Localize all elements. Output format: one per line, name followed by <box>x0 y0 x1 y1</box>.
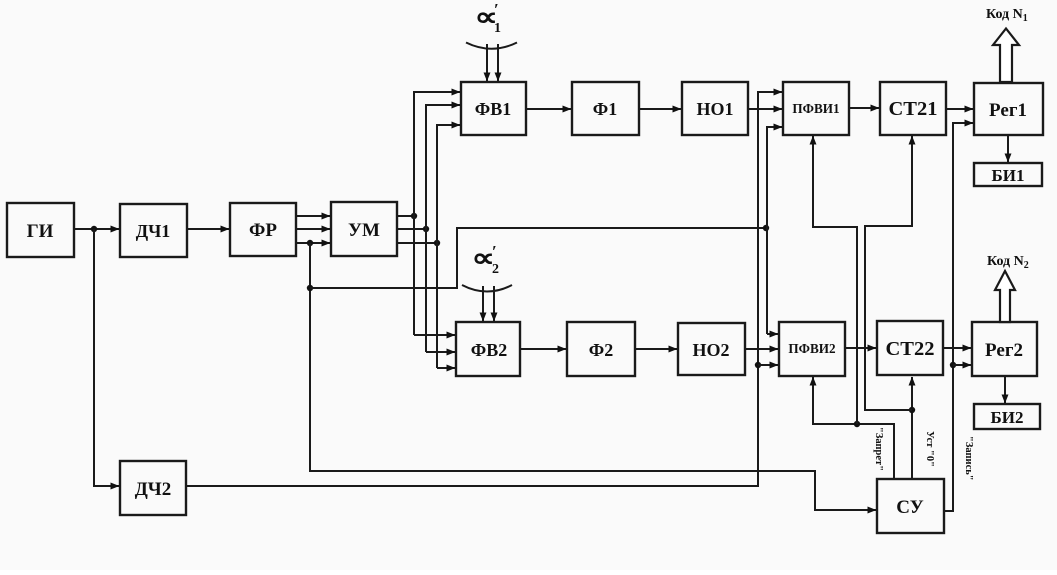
wire ФР to УМ line2 <box>296 228 330 230</box>
svg-text:ПФВИ1: ПФВИ1 <box>792 101 839 116</box>
wire Ф1 to НО1 <box>639 108 681 110</box>
node junction output2 <box>423 226 429 232</box>
wire Запись net СУ to Рег1 <box>944 123 973 511</box>
svg-text:ФВ1: ФВ1 <box>475 99 511 119</box>
svg-text:′: ′ <box>494 0 499 19</box>
svg-text:ГИ: ГИ <box>27 221 54 242</box>
wire Запись net branch to Рег2 <box>953 364 971 366</box>
wire Запрет net СУ to ПФВИ2 bottom <box>813 377 894 479</box>
wire Ф2 to НО2 <box>635 348 677 350</box>
block СУ <box>877 479 944 533</box>
block БИ2 <box>974 404 1040 429</box>
svg-text:′: ′ <box>492 242 497 261</box>
wire Уст0 net СУ to СТ22 bottom <box>911 377 913 479</box>
wire vertical1 to ФВ1 input1 <box>414 92 460 335</box>
wire ПФВИ1 to СТ21 <box>849 107 879 109</box>
svg-text:2: 2 <box>492 262 499 277</box>
block ДЧ2 <box>120 461 186 515</box>
wire alpha2 arrow right into ФВ2 top <box>493 286 495 321</box>
wire УМ output2 <box>397 228 426 230</box>
wire ДЧ2 output up vertical A to ПФВИ1 top input <box>186 92 782 486</box>
wire alpha2 arrow left into ФВ2 top <box>482 286 484 321</box>
svg-text:СУ: СУ <box>896 497 923 518</box>
block ФВ1 <box>461 82 526 135</box>
wire ПФВИ2 to СТ22 <box>845 347 876 349</box>
wire alpha1 arrow right into ФВ1 top <box>497 44 499 81</box>
block Рег1 <box>974 83 1043 135</box>
node junction Запись net <box>950 362 956 368</box>
svg-text:Рег2: Рег2 <box>985 340 1023 361</box>
wire ФВ1 to Ф1 <box>526 108 571 110</box>
wire УМ output3 <box>397 242 437 244</box>
svg-text:Рег1: Рег1 <box>989 100 1027 121</box>
wire vertical2 to ФВ2 input2 <box>426 351 455 353</box>
svg-text:БИ1: БИ1 <box>992 166 1025 185</box>
wire Уст0 net branch to СТ21 bottom <box>865 136 912 410</box>
svg-text:СТ22: СТ22 <box>886 338 935 360</box>
svg-text:СТ21: СТ21 <box>889 98 938 120</box>
wire СТ21 to Рег1 <box>946 108 973 110</box>
block ФР <box>230 203 296 256</box>
block ДЧ1 <box>120 204 187 257</box>
wire ФВ2 to Ф2 <box>520 348 566 350</box>
svg-text:НО2: НО2 <box>692 340 729 360</box>
block НО1 <box>682 82 748 135</box>
svg-text:Ф1: Ф1 <box>593 99 617 119</box>
wire НО1 to ПФВИ1 <box>748 108 782 110</box>
block ФВ2 <box>456 322 520 376</box>
wire vertical A branch to ПФВИ2 bottom input <box>758 364 778 366</box>
block НО2 <box>678 323 745 375</box>
node junction output1 <box>411 213 417 219</box>
wire vertical2 to ФВ1 input2 <box>426 105 460 352</box>
svg-text:НО1: НО1 <box>696 99 733 119</box>
block ПФВИ2 <box>779 322 845 376</box>
antenna arc alpha1 <box>466 43 517 49</box>
wire alpha1 arrow left into ФВ1 top <box>486 44 488 81</box>
wire vertical B to ПФВИ2 top input <box>767 333 778 335</box>
svg-text:"Запись": "Запись" <box>963 436 974 481</box>
wire ФР to УМ line3 <box>296 242 330 244</box>
wire Запрет net branch to ПФВИ1 bottom <box>813 136 857 424</box>
node junction Уст0 net <box>909 407 915 413</box>
block УМ <box>331 202 397 256</box>
node junction ГИ output <box>91 226 97 232</box>
symbol Код N2 hollow arrow <box>995 271 1015 322</box>
block ПФВИ1 <box>783 82 849 135</box>
wire ГИ junction down to ДЧ2 <box>94 229 119 486</box>
node junction output3 <box>434 240 440 246</box>
svg-text:ФВ2: ФВ2 <box>471 340 507 360</box>
wire Рег2 to БИ2 <box>1004 376 1006 403</box>
svg-text:"Запрет": "Запрет" <box>873 427 884 471</box>
wire НО2 to ПФВИ2 <box>745 348 778 350</box>
svg-text:Уст "0": Уст "0" <box>924 431 935 467</box>
wire ДЧ1 to ФР <box>187 228 229 230</box>
wire Рег1 to БИ1 <box>1007 135 1009 162</box>
svg-text:УМ: УМ <box>348 220 380 241</box>
svg-text:1: 1 <box>494 21 501 36</box>
svg-text:Код N2: Код N2 <box>987 254 1029 271</box>
wire УМ output1 <box>397 215 414 217</box>
block ГИ <box>7 203 74 257</box>
svg-text:БИ2: БИ2 <box>991 408 1024 427</box>
block СТ21 <box>880 82 946 135</box>
svg-text:ДЧ2: ДЧ2 <box>135 479 172 500</box>
svg-text:Код N1: Код N1 <box>986 7 1028 24</box>
block Рег2 <box>972 322 1037 376</box>
node junction ФР branch at 288 <box>307 285 313 291</box>
wire vertical3 to ФВ1 input3 <box>437 125 460 368</box>
node junction on vertical B <box>763 225 769 231</box>
block Ф2 <box>567 322 635 376</box>
wire ФР branch down and right to СУ input <box>310 243 876 510</box>
svg-text:Ф2: Ф2 <box>589 340 613 360</box>
wire ФР to УМ line1 <box>296 215 330 217</box>
antenna arc alpha2 <box>462 285 512 292</box>
node junction on ФР line3 <box>307 240 313 246</box>
node junction Запрет net <box>854 421 860 427</box>
symbol Код N1 hollow arrow <box>993 29 1019 83</box>
wire СТ22 to Рег2 <box>943 347 971 349</box>
svg-text:ФР: ФР <box>249 220 277 241</box>
svg-text:ДЧ1: ДЧ1 <box>136 221 171 241</box>
block Ф1 <box>572 82 639 135</box>
wire vertical B ПФВИ1 lower input <box>767 127 782 334</box>
wire vertical3 to ФВ2 input3 <box>437 367 455 369</box>
block БИ1 <box>974 163 1042 186</box>
block СТ22 <box>877 321 943 375</box>
wire vertical1 to ФВ2 input1 <box>414 334 455 336</box>
svg-text:ПФВИ2: ПФВИ2 <box>788 341 836 356</box>
wire ГИ to ДЧ1 <box>74 228 119 230</box>
wire ФР branch to vertical B feed <box>310 228 766 288</box>
node junction vertical A at ПФВИ2 <box>755 362 761 368</box>
